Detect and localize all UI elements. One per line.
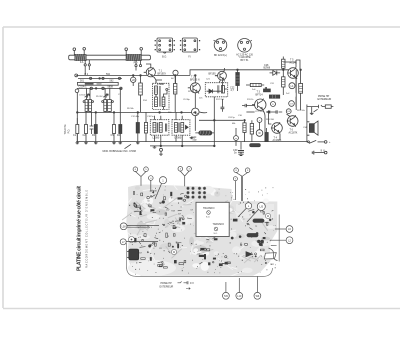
transformer footprint square <box>196 202 229 236</box>
callout pair C <box>234 168 250 201</box>
wire cap C25 <box>246 111 254 113</box>
svg-text:PLATINE circuit imprimé vue cô: PLATINE circuit imprimé vue côté circuit <box>77 186 83 271</box>
jack plug <box>307 105 334 112</box>
svg-text:50p: 50p <box>193 139 198 142</box>
caps series row <box>266 110 282 113</box>
svg-text:P.O.: P.O. <box>68 129 71 134</box>
transistor T2b <box>215 70 226 82</box>
label T6 <box>289 129 298 135</box>
pcb fine specks <box>129 187 276 275</box>
circled W <box>256 130 263 137</box>
tuning gang bar <box>78 82 119 85</box>
speaker <box>309 121 318 135</box>
svg-text:TRANSFO: TRANSFO <box>203 207 215 210</box>
cap C26 <box>265 87 266 90</box>
ground G8 <box>190 137 194 139</box>
IF can 1 windings <box>153 116 167 146</box>
circled small c <box>257 118 262 123</box>
junction <box>195 75 197 77</box>
cap row circle 1 <box>90 87 92 89</box>
label T2 <box>190 76 200 82</box>
transformer TR1 <box>83 88 93 112</box>
transistor T4 <box>271 122 282 140</box>
trimmer row wire <box>78 77 122 79</box>
pcb components scatter <box>133 190 276 268</box>
resistor R6 <box>139 75 143 112</box>
rod lower terminal 5 <box>84 60 86 75</box>
callout L38 <box>120 223 159 230</box>
label 501 <box>80 79 114 82</box>
ferrite rod antenna <box>69 55 151 60</box>
svg-text:BF195Y: BF195Y <box>158 72 167 75</box>
junction <box>95 112 97 114</box>
rod terminal 3 <box>125 48 128 55</box>
resistor R3 <box>94 112 97 141</box>
page border left <box>2 27 4 308</box>
svg-text:L5080: L5080 <box>153 137 160 140</box>
svg-text:BF195 N: BF195 N <box>190 78 200 81</box>
callout L5 <box>247 203 265 223</box>
svg-text:2n2: 2n2 <box>286 93 290 95</box>
rod lower terminal 7 <box>135 60 137 71</box>
svg-text:R23 10k: R23 10k <box>297 110 306 112</box>
label prise hp bottom <box>160 282 174 288</box>
svg-text:R1: R1 <box>150 191 152 193</box>
rod terminal 2 <box>83 48 86 56</box>
trimmer cap C1 <box>90 77 92 79</box>
electrolytic can on pcb <box>127 249 139 260</box>
junction <box>113 112 115 114</box>
callout L <box>238 203 252 217</box>
junction <box>214 120 216 122</box>
svg-text:68k: 68k <box>232 123 236 125</box>
left vertical wire <box>76 93 78 142</box>
wire caps to T4 base <box>269 114 272 125</box>
svg-text:9 V: 9 V <box>190 281 194 285</box>
resistor R2 <box>85 112 88 141</box>
rod terminal 4 <box>140 48 143 56</box>
svg-text:4n7: 4n7 <box>178 213 181 215</box>
resistor R18 <box>299 70 303 110</box>
rail terminal P2 <box>75 74 78 77</box>
ground G2 <box>84 142 88 144</box>
svg-text:MOD. BOBINAGE OSC. CH3M: MOD. BOBINAGE OSC. CH3M <box>103 150 136 153</box>
junction <box>300 69 302 71</box>
resistor R16 <box>282 57 285 77</box>
callout 1 <box>155 177 167 199</box>
junction <box>159 112 161 114</box>
rod coil L1 <box>75 54 86 60</box>
svg-text:C21: C21 <box>206 79 211 81</box>
svg-text:W: W <box>258 132 261 135</box>
wire T2b top <box>215 68 225 76</box>
svg-text:L7080: L7080 <box>175 137 182 140</box>
rod lower terminal 8 <box>139 60 141 67</box>
junction <box>181 112 183 114</box>
ground G6 <box>136 142 140 144</box>
value labels row <box>73 134 121 137</box>
label AC125 <box>236 54 253 62</box>
svg-text:+: + <box>329 141 331 144</box>
svg-text:5808: 5808 <box>108 86 114 89</box>
label C15A <box>79 86 114 89</box>
svg-text:BZW8: BZW8 <box>264 67 271 70</box>
transistor pinout AC125 <box>238 39 252 53</box>
svg-text:R5 2k2: R5 2k2 <box>96 96 103 98</box>
svg-text:C15A-1: C15A-1 <box>79 86 88 89</box>
top rail wire <box>76 74 190 76</box>
circled L4 <box>289 83 295 89</box>
terminal with ground <box>159 148 163 155</box>
resistor R17 <box>282 77 285 95</box>
label T1 <box>158 69 167 75</box>
rotated label TOUCHE PO <box>64 124 71 134</box>
svg-text:BFY 51: BFY 51 <box>241 59 250 62</box>
IF transformer L7080 dashed box <box>153 83 170 109</box>
svg-text:C27 100µ: C27 100µ <box>255 111 265 113</box>
ground G9 <box>310 107 314 114</box>
ground G7 <box>153 146 157 148</box>
svg-text:C31: C31 <box>270 83 275 85</box>
board outline lower <box>127 243 273 276</box>
IF can 1 dashed box <box>150 120 169 136</box>
resistor R9 <box>144 112 147 141</box>
svg-text:R22: R22 <box>260 212 263 214</box>
junction <box>140 75 142 77</box>
volume pot circle <box>192 93 200 131</box>
svg-text:BF714: BF714 <box>256 93 264 96</box>
pad grid <box>187 187 205 198</box>
pot body <box>195 131 214 135</box>
resistor R10 <box>236 70 240 91</box>
svg-text:T2: T2 <box>255 226 257 228</box>
svg-text:RACCORDEMENT COLLECTEUR D'ENSE: RACCORDEMENT COLLECTEUR D'ENSEMBLE <box>86 190 89 268</box>
svg-text:4k7: 4k7 <box>171 78 175 80</box>
transistor T1 <box>144 68 156 78</box>
svg-text:L9: L9 <box>290 104 293 106</box>
label T4 <box>273 136 282 142</box>
wire x214 <box>213 120 215 146</box>
junction <box>244 120 246 122</box>
junction <box>214 145 216 147</box>
cap row circle 3 <box>120 87 122 89</box>
svg-text:m: m <box>235 138 237 140</box>
mid horizontal wire <box>77 111 146 113</box>
svg-text:C3 10n: C3 10n <box>79 95 87 97</box>
resistor R8 <box>136 112 139 141</box>
resistor R15 horizontal dark <box>250 144 261 147</box>
callout pair A <box>133 167 148 186</box>
transistor T2 <box>188 75 201 93</box>
ground G4 <box>112 142 116 144</box>
mounting hole 1 <box>129 237 135 243</box>
svg-text:AC188K: AC188K <box>273 139 282 142</box>
ground G1 <box>76 142 80 144</box>
junction <box>174 75 176 77</box>
svg-text:B.O.: B.O. <box>162 55 167 58</box>
circled L8 <box>286 109 291 114</box>
svg-text:F.I: F.I <box>188 55 191 58</box>
ground G5 <box>119 142 123 144</box>
coil package BO pinout <box>155 38 175 53</box>
dark pill component 2 <box>247 234 258 237</box>
svg-text:L8: L8 <box>132 78 135 82</box>
osc coil trimmer arrow <box>85 94 90 98</box>
svg-text:C7: C7 <box>118 94 122 96</box>
terminal circle right of T1 <box>173 70 178 83</box>
callout L6 <box>275 226 293 233</box>
junction <box>95 88 97 90</box>
svg-text:S.O.: S.O. <box>206 216 210 218</box>
wire T5 top <box>283 60 300 79</box>
detector diode D1 <box>207 85 227 93</box>
svg-text:4n7: 4n7 <box>139 252 142 254</box>
svg-text:R2 1M: R2 1M <box>188 91 194 93</box>
svg-text:10n: 10n <box>199 98 203 100</box>
svg-text:T2: T2 <box>170 223 172 225</box>
svg-text:EXTERIEUR: EXTERIEUR <box>160 285 174 288</box>
svg-text:R9 56k: R9 56k <box>127 108 135 110</box>
ground cluster C30 <box>233 142 244 156</box>
junction <box>77 112 79 114</box>
wire x222 <box>221 79 223 107</box>
junction <box>268 111 270 113</box>
9V marking <box>178 281 195 289</box>
label T5 <box>290 59 298 65</box>
svg-text:562: 562 <box>110 79 115 82</box>
aerial input terminal <box>75 89 79 93</box>
under-IF rail wire <box>150 145 214 147</box>
callout L7 <box>120 239 158 245</box>
svg-text:C12 40µ: C12 40µ <box>131 116 140 118</box>
transistor T5 <box>288 67 299 79</box>
connector parallelogram <box>264 253 276 259</box>
cap C24 <box>221 107 225 112</box>
circled m <box>234 128 239 146</box>
page border bottom <box>3 308 400 310</box>
callout L2 <box>270 237 293 244</box>
junction <box>283 69 285 71</box>
svg-text:4n7: 4n7 <box>166 209 169 211</box>
mounting hole 3 <box>171 249 176 254</box>
svg-text:562: 562 <box>106 73 111 76</box>
cap row wire <box>77 87 122 89</box>
svg-text:TRANSFO: TRANSFO <box>213 223 225 226</box>
svg-text:50: 50 <box>172 221 174 223</box>
svg-text:C1: C1 <box>73 134 77 137</box>
svg-text:R17 150: R17 150 <box>216 99 225 101</box>
transistor T3 <box>252 99 266 111</box>
svg-text:EXTERIEUR: EXTERIEUR <box>318 98 332 101</box>
circled LB <box>131 75 136 86</box>
component value labels <box>79 78 308 129</box>
diode D2 <box>270 71 281 76</box>
wire T1 collector <box>154 77 156 83</box>
pcb copper area <box>126 184 277 275</box>
upper rail right section wire <box>190 70 296 76</box>
rod terminal 1 <box>73 48 76 55</box>
callout pair B <box>178 167 191 187</box>
label pot <box>192 136 197 142</box>
svg-text:L4: L4 <box>291 85 294 88</box>
svg-text:BF 224-5(+): BF 224-5(+) <box>214 54 227 57</box>
svg-text:C14: C14 <box>176 220 179 222</box>
svg-text:C24 5µ: C24 5µ <box>228 117 236 119</box>
circled L9 <box>289 101 295 107</box>
arrow mark <box>246 252 252 257</box>
junction <box>160 145 162 147</box>
label T3 <box>256 91 264 97</box>
battery minus terminal <box>312 151 327 155</box>
svg-text:R3: R3 <box>92 134 96 137</box>
transistor pads <box>258 240 264 245</box>
svg-text:L10: L10 <box>237 295 242 298</box>
callout 7 <box>233 177 237 200</box>
svg-text:BF195: BF195 <box>209 72 217 75</box>
callout L10 <box>236 278 243 299</box>
svg-text:R1: R1 <box>150 207 152 209</box>
mounting hole 2 <box>265 213 270 218</box>
label C22 <box>230 86 235 92</box>
callout O <box>149 176 154 191</box>
resistor R13 <box>250 120 253 141</box>
svg-text:T20: T20 <box>224 295 229 298</box>
squiggle wire right <box>269 248 278 261</box>
svg-text:L/5: L/5 <box>259 205 263 209</box>
resistor R5 <box>119 88 122 141</box>
svg-text:R11 1k: R11 1k <box>247 99 254 101</box>
resistor R4 <box>113 112 116 141</box>
cap C25 <box>242 104 255 107</box>
wire c to W <box>259 122 261 129</box>
svg-text:C18 5n: C18 5n <box>147 116 155 118</box>
svg-text:C9 30p: C9 30p <box>183 99 191 101</box>
resistor R12 horizontal <box>246 83 264 86</box>
svg-text:AC187K: AC187K <box>289 131 298 134</box>
svg-text:50: 50 <box>147 201 149 203</box>
coil package FI pinout <box>180 38 200 52</box>
svg-text:F.A: F.A <box>80 61 84 64</box>
page border top <box>3 26 400 28</box>
junction <box>99 78 101 80</box>
leader line <box>125 144 132 148</box>
svg-text:C9: C9 <box>190 210 192 212</box>
svg-text:P.O: P.O <box>134 62 138 65</box>
trimmer cap C2 <box>102 77 104 79</box>
svg-text:L38: L38 <box>122 225 127 228</box>
IF can 2 dashed box <box>172 120 190 136</box>
L7080 windings <box>155 80 168 110</box>
mid wire to pot <box>146 111 195 113</box>
svg-text:R1: R1 <box>159 248 161 250</box>
cap row circle 2 <box>102 87 104 89</box>
if coil trimmer arrow <box>103 94 108 98</box>
label PRISE HP <box>318 95 332 101</box>
label D2 <box>264 64 271 70</box>
svg-text:R20 330: R20 330 <box>266 119 275 121</box>
junction <box>132 75 134 77</box>
resistor R7 <box>174 75 177 112</box>
callout T20 <box>223 282 230 299</box>
bottom rail wire <box>76 141 309 143</box>
circled D <box>271 102 276 107</box>
junction <box>237 69 239 71</box>
svg-text:C16: C16 <box>238 115 243 117</box>
svg-text:R14: R14 <box>143 100 148 102</box>
transistor T6 <box>287 115 298 127</box>
svg-text:R18: R18 <box>171 211 174 213</box>
capacitor C4 <box>90 112 94 134</box>
wire pot to T3 <box>199 112 243 120</box>
resistor R11 <box>243 120 246 141</box>
svg-text:D: D <box>272 104 274 106</box>
callout W6 <box>254 277 261 300</box>
svg-text:S.O.: S.O. <box>214 233 218 235</box>
wire speaker <box>307 105 310 143</box>
svg-text:L7080: L7080 <box>157 83 164 86</box>
svg-text:501: 501 <box>80 79 85 82</box>
board edge right <box>278 215 280 262</box>
resistor R1 <box>76 118 79 142</box>
detector dashed box <box>205 83 227 97</box>
transformer TR2 <box>102 88 114 112</box>
IF can 2 windings <box>175 112 189 146</box>
rod coil L2 <box>126 54 141 60</box>
trimmer cap C3 <box>118 77 120 79</box>
transistor pinout BF224 <box>214 39 227 52</box>
switch S1 <box>308 140 317 143</box>
electrolytic C27 <box>264 89 271 92</box>
wire T3 emitter down <box>264 111 266 133</box>
wire T1 to rod <box>146 64 151 68</box>
resistor R14 dark <box>265 128 268 141</box>
wire output node <box>287 70 297 117</box>
ground G3 <box>94 142 98 144</box>
junction <box>137 112 139 114</box>
electrolytic C28 <box>269 95 279 98</box>
battery plus terminal <box>318 141 332 145</box>
junction <box>195 112 197 114</box>
wire detector out <box>213 97 215 121</box>
dark pill component 1 <box>253 219 264 222</box>
wire T2b to detector <box>219 80 221 83</box>
label P2 <box>85 73 111 76</box>
rod lower terminal 6 <box>88 60 90 70</box>
junction <box>181 145 183 147</box>
